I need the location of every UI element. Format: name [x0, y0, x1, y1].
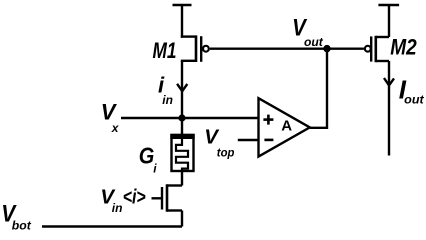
label G_i — [139, 142, 158, 176]
label i_in — [158, 73, 173, 108]
svg-text:M1: M1 — [153, 38, 177, 63]
svg-text:bot: bot — [12, 218, 32, 232]
svg-text:<i>: <i> — [123, 186, 146, 209]
transistor M2 — [365, 36, 389, 62]
svg-text:in: in — [162, 93, 173, 107]
label V_x — [101, 99, 120, 134]
wire M1 source down to node — [181, 61, 183, 118]
svg-text:top: top — [217, 145, 235, 159]
svg-text:A: A — [281, 117, 292, 134]
minus input marker — [264, 139, 273, 142]
current arrow i_in — [177, 84, 187, 91]
memristor G_i — [170, 134, 194, 172]
wire M2 source to supply — [388, 5, 390, 37]
node V_out junction — [323, 45, 330, 52]
wire V_x — [121, 117, 258, 119]
svg-text:out: out — [304, 35, 324, 49]
wire op-amp output up to V_out node — [310, 49, 327, 128]
svg-text:G: G — [139, 142, 155, 169]
transistor Q1 (input NMOS) — [152, 184, 183, 211]
supply bar M1 — [173, 4, 192, 6]
wire M2 drain down — [388, 61, 390, 156]
label V_top — [204, 125, 234, 159]
svg-text:i: i — [153, 162, 157, 176]
wire V_bot — [42, 225, 182, 227]
wire memristor to NMOS drain — [181, 171, 183, 186]
wire M1 drain to supply — [181, 5, 183, 38]
transistor M1 — [181, 35, 209, 62]
current arrow I_out — [384, 78, 394, 85]
wire V_top to inverting input — [238, 139, 258, 141]
label V_bot — [1, 199, 32, 233]
node V_x junction — [178, 114, 185, 121]
svg-text:x: x — [111, 121, 120, 135]
svg-text:M2: M2 — [390, 34, 417, 59]
supply bar M2 — [378, 4, 399, 6]
wire NMOS source down — [181, 211, 183, 227]
wire node to memristor — [181, 118, 183, 135]
svg-text:out: out — [404, 92, 425, 106]
plus input marker — [263, 115, 273, 125]
op-amp U1 — [259, 98, 310, 156]
wire V_out net (M1 gate to M2 gate) — [210, 48, 364, 50]
label V_in <i> — [100, 186, 145, 215]
svg-text:in: in — [112, 201, 123, 215]
label V_out — [292, 14, 324, 49]
label I_out — [399, 74, 425, 106]
